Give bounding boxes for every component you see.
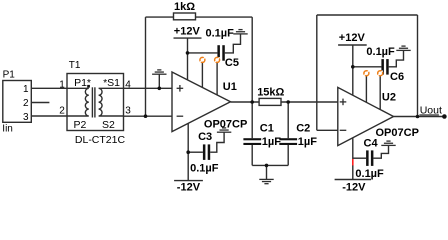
svg-text:C3: C3 [198,131,212,143]
svg-text:15kΩ: 15kΩ [257,87,284,99]
svg-text:P2: P2 [74,119,87,131]
svg-text:DL-CT21C: DL-CT21C [75,134,126,146]
svg-text:+12V: +12V [174,26,201,38]
svg-text:U2: U2 [382,92,396,104]
svg-text:*S1: *S1 [103,77,120,89]
svg-text:0.1µF: 0.1µF [206,27,235,39]
svg-text:4: 4 [125,79,131,90]
svg-text:S2: S2 [102,119,115,131]
svg-text:0.1µF: 0.1µF [190,163,219,175]
svg-text:T1: T1 [69,60,81,71]
svg-text:2: 2 [59,105,65,116]
svg-text:0.1µF: 0.1µF [355,168,384,180]
svg-text:3: 3 [23,112,29,123]
svg-text:P1: P1 [3,69,16,80]
svg-text:1µF: 1µF [298,136,317,148]
svg-text:Uout: Uout [420,105,442,117]
svg-text:C2: C2 [296,123,310,135]
svg-text:OP07CP: OP07CP [376,127,419,139]
svg-text:-12V: -12V [177,182,201,194]
svg-text:P1*: P1* [74,77,91,89]
svg-text:1µF: 1µF [262,136,281,148]
svg-text:U1: U1 [223,81,237,93]
svg-text:2: 2 [23,98,29,109]
svg-text:1: 1 [23,84,29,95]
svg-text:+12V: +12V [339,32,366,44]
svg-text:C6: C6 [390,71,404,83]
svg-text:0.1µF: 0.1µF [366,46,395,58]
svg-text:OP07CP: OP07CP [204,119,247,131]
svg-text:-12V: -12V [342,182,366,194]
svg-text:3: 3 [125,105,131,116]
svg-text:C5: C5 [225,57,239,69]
svg-text:Iin: Iin [2,124,13,135]
svg-text:1kΩ: 1kΩ [174,1,195,13]
svg-text:C1: C1 [260,123,274,135]
svg-text:1: 1 [59,79,65,90]
svg-text:C4: C4 [364,137,379,149]
